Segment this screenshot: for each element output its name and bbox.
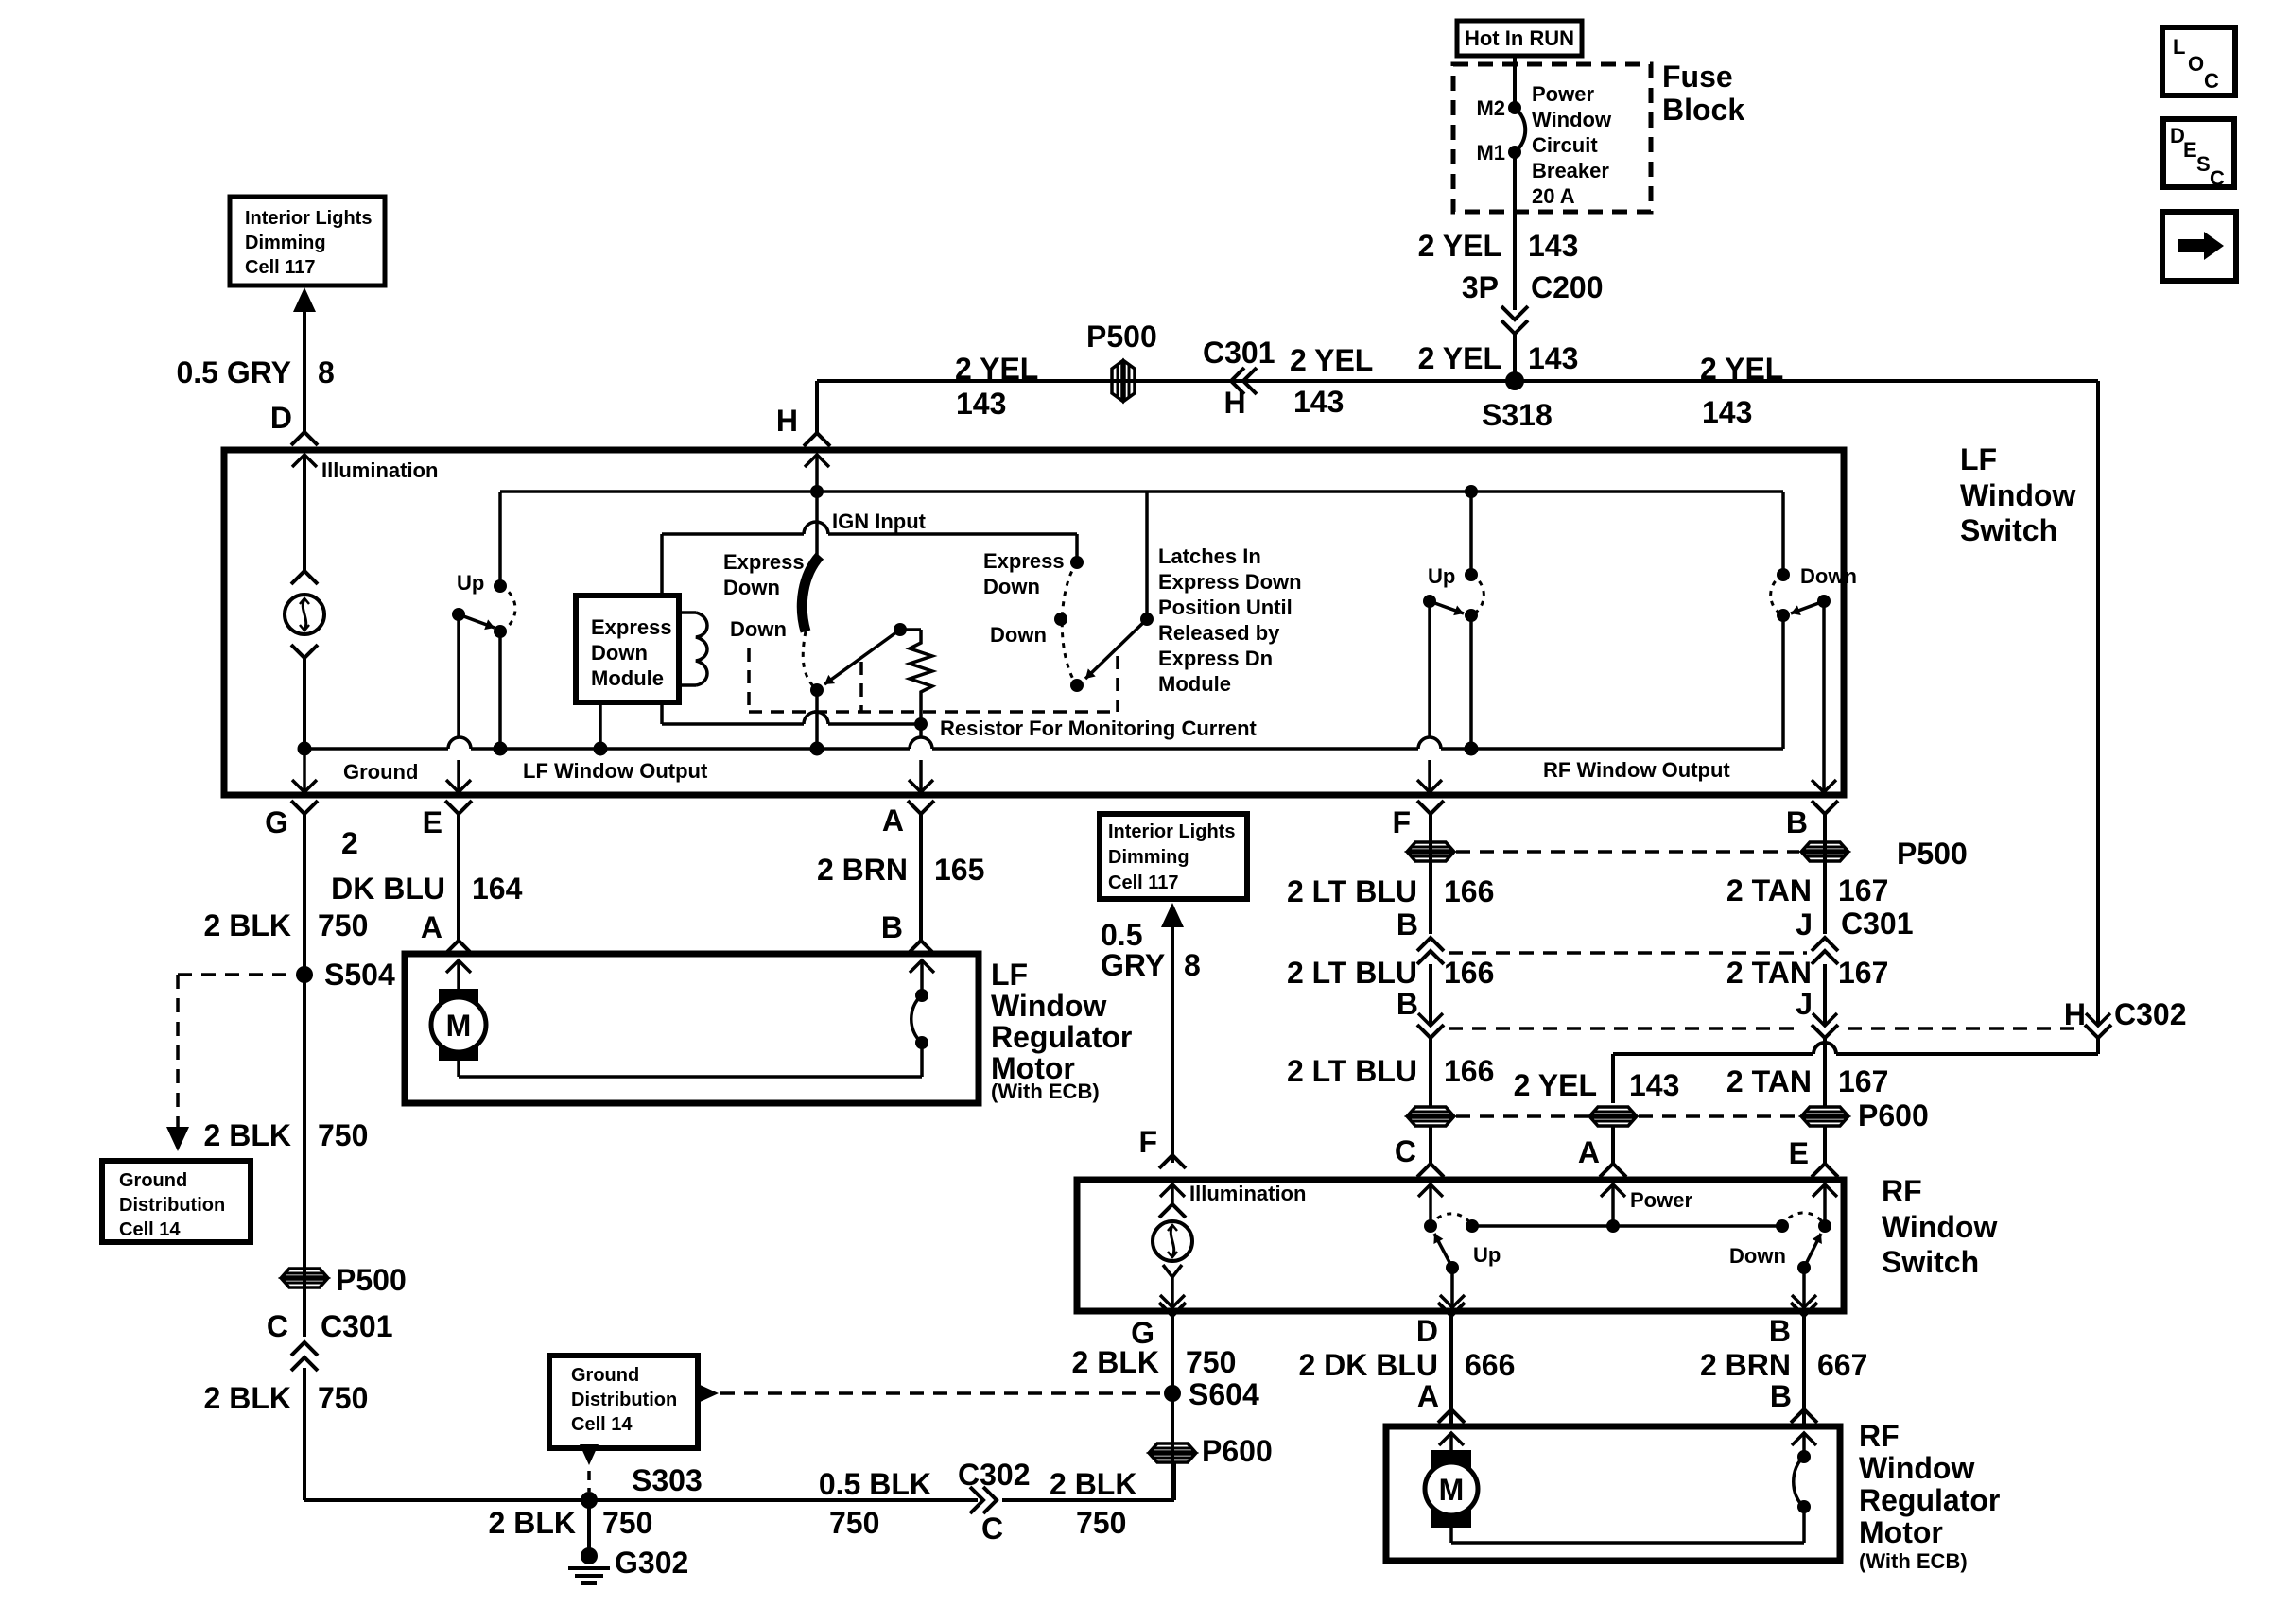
- latch arm from pivot to express-down position: [1140, 613, 1154, 626]
- svg-text:C200: C200: [1531, 270, 1604, 304]
- svg-text:0.5 BLK: 0.5 BLK: [819, 1467, 931, 1501]
- svg-text:G302: G302: [615, 1546, 688, 1580]
- ground G302: [587, 1500, 591, 1556]
- wire from Down contact to RF output bus riser: [1781, 615, 1785, 749]
- module output wire to LF window output bus: [599, 702, 602, 749]
- svg-text:Express Dn: Express Dn: [1158, 647, 1273, 670]
- svg-text:2 DK BLU: 2 DK BLU: [1298, 1348, 1438, 1382]
- svg-text:Interior Lights: Interior Lights: [1108, 821, 1235, 842]
- svg-text:(With ECB): (With ECB): [991, 1080, 1100, 1103]
- svg-text:Distribution: Distribution: [119, 1195, 225, 1216]
- svg-text:Down: Down: [730, 617, 787, 641]
- svg-text:C: C: [2204, 69, 2219, 93]
- svg-text:143: 143: [956, 387, 1006, 421]
- svg-text:Ground: Ground: [571, 1365, 639, 1386]
- svg-text:H: H: [2064, 997, 2086, 1031]
- svg-text:2 BLK: 2 BLK: [1072, 1345, 1159, 1379]
- svg-text:Down: Down: [983, 575, 1040, 598]
- arrow from Ground Distribution box to S604 dashed line: [696, 1383, 719, 1404]
- in-line grommet P500 (G column): [282, 1269, 327, 1277]
- svg-text:H: H: [776, 404, 798, 438]
- svg-text:0.5: 0.5: [1101, 918, 1142, 952]
- connector C302 terminal H (from feed bus): [2086, 1013, 2110, 1026]
- wire from bottom run up to P600 (RF G column): [1172, 1463, 1176, 1500]
- svg-text:Ground: Ground: [119, 1170, 187, 1191]
- reference box: Interior Lights Dimming Cell 117 (center): [1100, 814, 1247, 899]
- power feed label box: Hot In RUN: [1457, 21, 1582, 56]
- RF motor M symbol: [1431, 1450, 1471, 1468]
- svg-text:750: 750: [318, 1381, 368, 1415]
- dashed connector line P600: [1456, 1114, 1588, 1118]
- svg-text:750: 750: [1186, 1345, 1236, 1379]
- wire W3 from module to resistor bottom (hops IGN wire): [660, 702, 664, 724]
- svg-text:Cell 14: Cell 14: [119, 1219, 181, 1240]
- svg-text:3P: 3P: [1462, 270, 1499, 304]
- svg-text:Window: Window: [1882, 1210, 1997, 1244]
- svg-text:143: 143: [1629, 1068, 1679, 1102]
- svg-text:Up: Up: [1473, 1243, 1501, 1267]
- svg-text:Cell 117: Cell 117: [1108, 872, 1179, 893]
- svg-text:Module: Module: [591, 666, 664, 690]
- latch mechanism dashed boundary: [747, 648, 751, 712]
- wire: bus right corner down to C302 H: [2096, 381, 2100, 1024]
- svg-text:B: B: [1397, 907, 1418, 942]
- latch express-down switch (right): upper contact: [1070, 556, 1084, 569]
- resistor for monitoring current: [894, 623, 907, 636]
- svg-text:Express Down: Express Down: [1158, 570, 1302, 594]
- RF Window Switch outline: [1077, 1180, 1844, 1311]
- dashed reference from S504 to Ground Distribution: [178, 973, 293, 976]
- illumination lamp (RF switch): [1153, 1221, 1192, 1261]
- svg-text:L: L: [2173, 35, 2185, 59]
- wire from C200 to S318: [1513, 334, 1517, 381]
- svg-text:Position Until: Position Until: [1158, 596, 1293, 619]
- dashed connector line C301: [1449, 951, 1807, 955]
- svg-text:165: 165: [934, 853, 984, 887]
- RF switch power input wire (terminal A): [1601, 1184, 1625, 1197]
- svg-text:C: C: [2210, 166, 2225, 190]
- svg-text:2 LT BLU: 2 LT BLU: [1287, 956, 1417, 990]
- in-line grommet P500 (B column): [1802, 842, 1848, 851]
- svg-text:2 YEL: 2 YEL: [1418, 341, 1501, 375]
- svg-text:P500: P500: [336, 1263, 407, 1297]
- illumination wire inside LF switch: [292, 455, 317, 467]
- in-line grommet P500 (F column): [1408, 842, 1453, 851]
- svg-text:8: 8: [318, 355, 335, 389]
- svg-text:666: 666: [1465, 1348, 1515, 1382]
- svg-text:Down: Down: [1800, 564, 1857, 588]
- svg-text:0.5 GRY: 0.5 GRY: [176, 355, 291, 389]
- reference box: Ground Distribution Cell 14 (center): [549, 1356, 698, 1448]
- svg-text:Released by: Released by: [1158, 621, 1280, 645]
- latch dashed throw arc with Down position: [1062, 562, 1077, 685]
- reference box: Interior Lights Dimming Cell 117 (left): [230, 197, 385, 285]
- svg-text:Power: Power: [1532, 82, 1594, 106]
- svg-text:Switch: Switch: [1882, 1245, 1979, 1279]
- svg-text:2: 2: [341, 826, 358, 860]
- svg-text:2 YEL: 2 YEL: [1290, 343, 1373, 377]
- svg-text:Up: Up: [457, 571, 484, 595]
- svg-text:Motor: Motor: [1859, 1515, 1943, 1549]
- svg-text:O: O: [2188, 52, 2204, 76]
- splice S303: [581, 1492, 598, 1509]
- svg-text:Window: Window: [1532, 108, 1612, 131]
- svg-text:Cell 117: Cell 117: [245, 257, 316, 278]
- svg-text:C: C: [981, 1512, 1003, 1546]
- svg-text:C301: C301: [321, 1309, 393, 1343]
- internal ground bus of LF switch: [304, 747, 448, 751]
- svg-text:S318: S318: [1482, 398, 1553, 432]
- wire from Hot In RUN into fuse block: [1513, 56, 1517, 106]
- svg-text:750: 750: [829, 1506, 879, 1540]
- internal wire W2: express-down module to latch contact (hops IGN wire): [662, 532, 804, 536]
- motor internal wire to ECB: [457, 1061, 460, 1077]
- svg-text:167: 167: [1838, 1064, 1888, 1098]
- DESC reference box: [2163, 119, 2234, 187]
- svg-text:M2: M2: [1476, 96, 1505, 120]
- svg-text:Express: Express: [983, 549, 1065, 573]
- svg-text:2 BLK: 2 BLK: [204, 1118, 291, 1152]
- svg-text:Express: Express: [591, 615, 672, 639]
- svg-text:Down: Down: [723, 576, 780, 599]
- svg-text:H: H: [1223, 386, 1245, 420]
- svg-text:Module: Module: [1158, 672, 1231, 696]
- ground wire exits at terminal G: [292, 780, 317, 792]
- in-line connector C301 on bus (terminal H): [1231, 368, 1244, 394]
- svg-text:S: S: [2196, 152, 2211, 176]
- wire from C302 H down and left to A column (2 YEL 143): [2096, 1038, 2100, 1054]
- motor M symbol: [439, 989, 478, 1008]
- svg-text:2 LT BLU: 2 LT BLU: [1287, 1054, 1417, 1088]
- svg-text:RF Window Output: RF Window Output: [1543, 758, 1730, 782]
- svg-text:Switch: Switch: [1960, 513, 2057, 547]
- svg-text:143: 143: [1528, 341, 1578, 375]
- wires between C301 and C302: [1429, 964, 1432, 1026]
- svg-text:Window: Window: [1859, 1451, 1974, 1485]
- forward arrow box: [2162, 212, 2236, 281]
- svg-text:Hot In RUN: Hot In RUN: [1465, 26, 1574, 50]
- svg-text:J: J: [1796, 987, 1813, 1021]
- svg-text:Resistor For Monitoring Curren: Resistor For Monitoring Current: [940, 717, 1258, 740]
- svg-text:2 BLK: 2 BLK: [204, 908, 291, 942]
- svg-text:P600: P600: [1858, 1098, 1929, 1132]
- dashed connector line C302: [1449, 1027, 1802, 1030]
- svg-text:Distribution: Distribution: [571, 1390, 677, 1410]
- svg-text:Regulator: Regulator: [1859, 1483, 2000, 1517]
- svg-text:2 BLK: 2 BLK: [1050, 1467, 1136, 1501]
- svg-text:Breaker: Breaker: [1532, 159, 1609, 182]
- svg-text:M: M: [1439, 1473, 1465, 1507]
- svg-text:B: B: [1770, 1379, 1792, 1413]
- svg-text:167: 167: [1838, 873, 1888, 907]
- svg-text:Fuse: Fuse: [1662, 60, 1733, 94]
- svg-text:Window: Window: [1960, 478, 2075, 512]
- svg-text:IGN Input: IGN Input: [832, 510, 927, 533]
- RF Down switch: [1776, 1219, 1789, 1233]
- svg-text:2 YEL: 2 YEL: [1514, 1068, 1597, 1102]
- svg-text:Down: Down: [990, 623, 1047, 647]
- svg-text:RF: RF: [1859, 1419, 1900, 1453]
- svg-text:LF: LF: [1960, 442, 1997, 476]
- splice S604: [1164, 1385, 1181, 1402]
- ECB circuit breaker inside motor: [915, 989, 928, 1002]
- svg-text:2 BLK: 2 BLK: [489, 1506, 576, 1540]
- svg-text:Regulator: Regulator: [991, 1020, 1132, 1054]
- ECB circuit breaker inside RF motor: [1797, 1450, 1811, 1463]
- svg-text:S303: S303: [632, 1463, 703, 1497]
- RF switch internal power rail: [1472, 1224, 1782, 1228]
- svg-text:F: F: [1392, 805, 1411, 839]
- dashed reference line to S604: [720, 1391, 1161, 1395]
- RF motor pin A internal arrow: [1439, 1433, 1464, 1445]
- svg-text:750: 750: [318, 908, 368, 942]
- RF motor pin B internal arrow: [1792, 1433, 1816, 1445]
- ground bus junction at lamp wire: [298, 742, 312, 756]
- svg-text:2 BRN: 2 BRN: [817, 853, 908, 887]
- svg-text:Up: Up: [1428, 564, 1455, 588]
- svg-text:P600: P600: [1202, 1434, 1273, 1468]
- LOC reference box: [2162, 27, 2235, 95]
- svg-text:167: 167: [1838, 956, 1888, 990]
- svg-text:Down: Down: [591, 641, 648, 665]
- svg-text:C302: C302: [2114, 997, 2187, 1031]
- svg-text:143: 143: [1293, 385, 1344, 419]
- svg-text:164: 164: [472, 872, 523, 906]
- RF Up switch: [1424, 1219, 1437, 1233]
- svg-text:2 BRN: 2 BRN: [1700, 1348, 1791, 1382]
- wires from C302 down to P600 grommets: [1429, 1038, 1432, 1106]
- svg-text:20 A: 20 A: [1532, 184, 1575, 208]
- svg-text:2 LT BLU: 2 LT BLU: [1287, 874, 1417, 908]
- svg-text:E: E: [1789, 1136, 1809, 1170]
- svg-text:Dimming: Dimming: [1108, 847, 1189, 868]
- Express Down Module box: [576, 596, 679, 702]
- dashed connector line P500: [1456, 850, 1799, 854]
- svg-text:C301: C301: [1203, 336, 1275, 370]
- svg-text:667: 667: [1817, 1348, 1867, 1382]
- svg-text:A: A: [421, 910, 442, 944]
- svg-text:P500: P500: [1086, 320, 1157, 354]
- svg-text:A: A: [1417, 1379, 1439, 1413]
- motor pin B internal arrow: [910, 960, 934, 973]
- wires from P600 to RF switch terminals: [1429, 1127, 1432, 1164]
- module coil (relay) symbol: [679, 611, 696, 614]
- LF Window Switch outline: [224, 450, 1844, 795]
- in-line grommet P600 (A column): [1590, 1107, 1636, 1115]
- svg-text:Illumination: Illumination: [1189, 1182, 1306, 1205]
- svg-text:750: 750: [1076, 1506, 1126, 1540]
- svg-text:LF Window Output: LF Window Output: [523, 759, 708, 783]
- svg-text:S504: S504: [324, 958, 395, 992]
- in-line grommet P600 (C column): [1408, 1107, 1453, 1115]
- svg-text:143: 143: [1702, 395, 1752, 429]
- RF motor internal wire to ECB: [1449, 1528, 1453, 1543]
- svg-text:D: D: [270, 401, 292, 435]
- resistor output wire to terminal A: [919, 724, 923, 737]
- svg-text:2 TAN: 2 TAN: [1726, 873, 1812, 907]
- dashed arrow from Ground Distribution box down to S303: [580, 1444, 599, 1465]
- svg-text:B: B: [1769, 1314, 1791, 1348]
- svg-text:DK BLU: DK BLU: [331, 872, 445, 906]
- svg-text:C301: C301: [1841, 907, 1914, 941]
- svg-text:Interior Lights: Interior Lights: [245, 208, 372, 229]
- svg-text:2 BLK: 2 BLK: [204, 1381, 291, 1415]
- svg-text:Power: Power: [1630, 1188, 1692, 1212]
- splice S504: [296, 966, 313, 983]
- svg-text:C: C: [267, 1309, 288, 1343]
- svg-text:2 YEL: 2 YEL: [1418, 229, 1501, 263]
- svg-text:166: 166: [1444, 956, 1494, 990]
- IGN input wire from terminal H: [805, 455, 829, 467]
- svg-text:G: G: [265, 805, 288, 839]
- RF Window Regulator Motor box: [1386, 1426, 1840, 1561]
- circuit breaker 20A (terminals M2/M1): [1508, 101, 1521, 114]
- express down actuator (thick arc) on IGN wire: [802, 556, 820, 631]
- fuse block dashed outline: [1453, 64, 1651, 212]
- wire from breaker M1 down to C200: [1513, 152, 1517, 310]
- RF illumination wire inside switch: [1160, 1184, 1185, 1197]
- svg-text:Express: Express: [723, 550, 805, 574]
- svg-text:A: A: [882, 803, 904, 838]
- LF Window Regulator Motor box: [405, 954, 979, 1103]
- svg-text:Circuit: Circuit: [1532, 133, 1598, 157]
- svg-text:C302: C302: [958, 1458, 1031, 1492]
- svg-text:750: 750: [318, 1118, 368, 1152]
- svg-text:166: 166: [1444, 1054, 1494, 1088]
- svg-text:E: E: [2183, 138, 2197, 162]
- main feed bus wire (2 YEL 143) from H corner to right corner: [817, 379, 2098, 383]
- svg-text:2 YEL: 2 YEL: [1700, 352, 1783, 386]
- motor pin A internal arrow: [446, 960, 471, 973]
- ground wire bottom run: [304, 1498, 978, 1502]
- svg-text:Ground: Ground: [343, 760, 418, 784]
- wire from RF-Up common down to terminal F: [1428, 601, 1431, 737]
- splice S318: [1505, 371, 1524, 390]
- svg-text:8: 8: [1184, 948, 1201, 982]
- svg-text:Window: Window: [991, 989, 1106, 1023]
- wire from RF-Down common down to terminal B: [1822, 601, 1826, 792]
- wire: bus drop to LF switch terminal H: [815, 381, 819, 433]
- internal wire W1: IGN power rail to switches: [500, 490, 1783, 493]
- svg-text:2 TAN: 2 TAN: [1726, 956, 1812, 990]
- wire from Up common down to terminal E (LF Window Output): [457, 614, 460, 737]
- in-line grommet P500 on bus: [1112, 361, 1122, 401]
- svg-text:M1: M1: [1476, 141, 1505, 164]
- reference box: Ground Distribution Cell 14 (left): [102, 1161, 251, 1242]
- in-line grommet P600 (RF G column): [1150, 1443, 1195, 1452]
- svg-text:Cell 14: Cell 14: [571, 1414, 633, 1435]
- svg-text:F: F: [1138, 1125, 1157, 1159]
- svg-text:C: C: [1395, 1134, 1416, 1168]
- wire with arrow up to Interior Lights box (0.5 GRY 8): [293, 287, 316, 312]
- svg-text:Dimming: Dimming: [245, 233, 326, 253]
- svg-text:Block: Block: [1662, 93, 1744, 127]
- svg-text:B: B: [1786, 805, 1808, 839]
- svg-text:166: 166: [1444, 874, 1494, 908]
- svg-text:2 TAN: 2 TAN: [1726, 1064, 1812, 1098]
- svg-text:143: 143: [1528, 229, 1578, 263]
- wire with arrow up to Interior Lights box (RF illumination): [1161, 903, 1184, 927]
- svg-text:A: A: [1578, 1135, 1600, 1169]
- svg-text:Illumination: Illumination: [321, 458, 438, 482]
- svg-text:RF: RF: [1882, 1174, 1922, 1208]
- svg-text:Down: Down: [1729, 1244, 1786, 1268]
- svg-text:LF: LF: [991, 958, 1028, 992]
- svg-text:S604: S604: [1189, 1377, 1259, 1411]
- svg-text:GRY: GRY: [1101, 948, 1165, 982]
- svg-text:E: E: [423, 805, 442, 839]
- svg-text:J: J: [1796, 907, 1813, 942]
- svg-text:B: B: [1397, 987, 1418, 1021]
- svg-text:750: 750: [602, 1506, 652, 1540]
- express down switch common junction: [810, 683, 824, 697]
- in-line grommet P600 (E column): [1802, 1107, 1848, 1115]
- svg-text:P500: P500: [1897, 837, 1968, 871]
- svg-text:(With ECB): (With ECB): [1859, 1549, 1968, 1573]
- svg-text:B: B: [881, 910, 903, 944]
- svg-text:M: M: [446, 1009, 472, 1043]
- svg-text:2 YEL: 2 YEL: [955, 352, 1038, 386]
- svg-text:D: D: [1416, 1314, 1438, 1348]
- svg-text:Latches In: Latches In: [1158, 544, 1261, 568]
- illumination lamp (LF switch): [285, 595, 324, 634]
